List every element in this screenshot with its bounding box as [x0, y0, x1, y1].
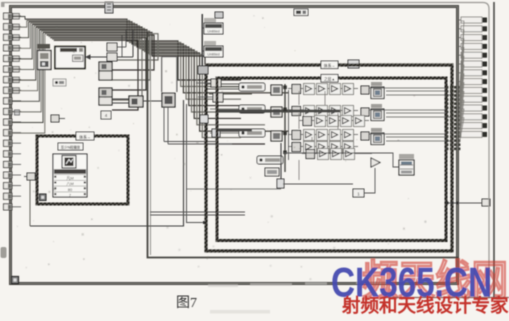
- small box above frame B: [348, 60, 359, 68]
- row 3 input label: [239, 129, 265, 137]
- row 1 function chain: [288, 84, 358, 95]
- row 1 vi icon: [271, 85, 282, 95]
- PXI constants wire: [202, 14, 204, 66]
- row 2 output wires: [369, 110, 452, 117]
- row 2 output box: [371, 104, 384, 121]
- row 2 function chain: [288, 106, 358, 117]
- small terminal left-mid: [51, 115, 65, 122]
- frame B left tunnel: [198, 66, 208, 74]
- left boundary terminal 15: [4, 161, 22, 167]
- left margin smudge: [1, 247, 7, 258]
- row 2 vi icon: [271, 107, 282, 117]
- listbox control: [53, 154, 87, 197]
- page edge line: [493, 2, 495, 298]
- left boundary terminal 7: [4, 77, 22, 83]
- row 3 output box: [371, 128, 384, 145]
- listbox title bar: [54, 169, 86, 173]
- right side fan wires: [460, 21, 465, 143]
- row 5 end triangle: [371, 158, 380, 167]
- subframe while loop: [37, 136, 128, 204]
- svg-text:80: 80: [68, 187, 73, 192]
- left boundary terminal 10: [4, 108, 22, 114]
- right lower terminal: [482, 199, 490, 206]
- wire fan from left terminals: [12, 17, 45, 134]
- left boundary terminal 5: [4, 55, 22, 61]
- row 1 output box: [371, 82, 384, 99]
- wire bundle staircases: [25, 19, 289, 144]
- svg-text:八M: 八M: [66, 181, 73, 186]
- right terminal column: [459, 17, 488, 137]
- left boundary terminal 2: [4, 24, 22, 30]
- left boundary terminal 12: [4, 130, 22, 136]
- small box pair lower: [198, 93, 223, 102]
- left boundary terminal 9: [4, 98, 22, 104]
- svg-text:至少N段播放: 至少N段播放: [61, 145, 81, 150]
- row 5 input label: [257, 156, 283, 164]
- svg-text:之层▲: 之层▲: [324, 77, 335, 82]
- PXI slot constant 1: [204, 18, 223, 34]
- white strip gap: [162, 57, 177, 92]
- inter-row connector wires: [299, 91, 338, 180]
- tunnel dot cluster right: [446, 86, 460, 150]
- pxi feed vertical: [202, 14, 204, 66]
- row 3 end node: [361, 132, 369, 140]
- watermark underline: [385, 297, 509, 299]
- extra exit wires: [205, 84, 262, 133]
- frame C label: [321, 75, 338, 83]
- svg-text:体系→: 体系→: [324, 63, 336, 68]
- tiny box on left edge: [15, 110, 20, 115]
- mid vertical wire pair: [30, 100, 281, 226]
- left boundary terminal 19: [4, 204, 22, 210]
- node in strip: [162, 93, 175, 107]
- subframe terminal: [24, 173, 37, 180]
- row 3 vi icon: [271, 131, 282, 141]
- svg-text:射频和天线设计专家: 射频和天线设计专家: [341, 295, 509, 316]
- frame C structure: [217, 78, 446, 241]
- svg-text:Untitled: Untitled: [207, 30, 219, 34]
- long routed wire second: [150, 36, 152, 255]
- left boundary terminal 17: [4, 183, 22, 189]
- scan noise: [162, 51, 164, 53]
- row 3b mid chain: [299, 116, 369, 127]
- row 5 long wire: [283, 153, 399, 167]
- thick cluster wire row2: [218, 110, 340, 113]
- left boundary terminal 18: [4, 193, 22, 199]
- outer frame top label: [294, 9, 308, 16]
- outer while loop frame: [11, 7, 458, 284]
- strip lower wires: [164, 107, 232, 144]
- lower horizontal wires: [150, 212, 245, 215]
- row 3 function chain: [288, 130, 358, 141]
- row 2 end node: [361, 108, 369, 116]
- icon stack B: [99, 88, 112, 105]
- left boundary terminal 4: [4, 45, 22, 51]
- index box wires: [364, 168, 375, 193]
- faint ghost text: [208, 281, 386, 314]
- vertical bus in frame C: [283, 84, 288, 172]
- row 1 output wires: [369, 88, 452, 95]
- property label dot: [53, 79, 66, 86]
- left boundary terminal 13: [4, 140, 22, 146]
- subframe iteration terminal: [40, 194, 47, 201]
- icon tuner label: [37, 44, 50, 49]
- left boundary terminal 16: [4, 172, 22, 178]
- row 5 function chain: [288, 142, 358, 153]
- svg-text:凡M: 凡M: [66, 175, 73, 180]
- subframe inner label: [58, 143, 83, 150]
- top border tunnel box: [105, 2, 113, 13]
- frame B label: [321, 61, 338, 69]
- small bracket box: [101, 111, 111, 119]
- output cluster box: [399, 160, 414, 175]
- icon tuner: [38, 51, 52, 70]
- output cluster label: [399, 154, 414, 159]
- page corner mark: [1, 2, 5, 7]
- row 2 input label: [239, 105, 265, 113]
- frame B while loop: [206, 65, 452, 251]
- left boundary terminal 14: [4, 151, 22, 157]
- top tunnel small box: [215, 12, 223, 18]
- numeric terminal B: [107, 35, 122, 61]
- row 3 output wires: [369, 134, 452, 141]
- left boundary terminal 3: [4, 34, 22, 40]
- thick cluster wire row3: [218, 129, 252, 132]
- svg-text:图7: 图7: [176, 296, 197, 311]
- wire into session node with arrow: [85, 30, 133, 60]
- frame B small box 1: [200, 115, 208, 123]
- numeric terminal A: [107, 30, 126, 51]
- icon stack A: [99, 62, 112, 80]
- right lower wire: [446, 202, 482, 205]
- wires icons to relay box: [112, 99, 129, 103]
- left boundary terminal 8: [4, 87, 22, 93]
- svg-text:体系→: 体系→: [79, 135, 91, 140]
- index box [1]: [353, 189, 364, 197]
- listbox rows: [54, 175, 86, 198]
- subframe label: [76, 132, 94, 140]
- wire to index box: [283, 183, 353, 185]
- PXI slot constant 2: [204, 41, 223, 57]
- row 5 vi box: [265, 168, 279, 176]
- left boundary terminal 6: [4, 66, 22, 72]
- small box pair upper: [196, 79, 221, 87]
- frame B small box 2: [212, 129, 220, 137]
- row 1 input label: [239, 83, 265, 91]
- lower vertical wire: [277, 143, 284, 188]
- row 1 end node: [361, 86, 369, 94]
- session node: [55, 47, 85, 69]
- long vertical routed wire: [148, 33, 459, 258]
- relay box out wire: [143, 100, 162, 102]
- subframe terminal feed wire: [29, 180, 31, 226]
- listbox icon: [62, 156, 76, 169]
- row 5 second chain: [302, 149, 372, 160]
- relay box: [129, 96, 143, 107]
- outer frame iteration terminal: [12, 277, 19, 284]
- left boundary terminal 1: [4, 13, 22, 19]
- left boundary terminal 11: [4, 119, 22, 125]
- svg-text:Untitled: Untitled: [207, 53, 219, 57]
